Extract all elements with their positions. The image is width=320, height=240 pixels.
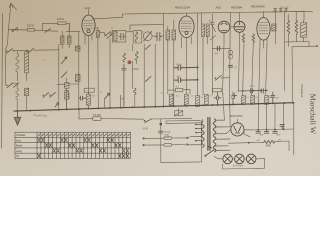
transformer secondary taps [215,120,230,150]
svg-text:50pF: 50pF [176,64,182,66]
svg-text:AB1: AB1 [215,5,222,9]
svg-text:Kurz: Kurz [16,138,22,142]
wire anode to top rail [95,14,123,19]
tiny value labels scattered [42,28,272,107]
transformer taps left [190,124,202,145]
switch arrow on bus [105,93,110,99]
wire antenna downlead [5,30,8,82]
coil L1 [16,54,19,72]
wire coil connections [17,50,26,81]
resistor hatched bus b1 [169,94,173,105]
box outline over bus [84,88,94,92]
transformer secondary winding [213,119,216,152]
svg-text:~170pF: ~170pF [131,69,139,71]
resistor hatched mid [75,46,80,51]
terminal dots mains [143,137,145,139]
transformer T primary winding [202,122,205,148]
capacitor at 212 [211,14,214,95]
wire U2 area verticals [163,13,197,106]
table X marks [38,138,129,158]
svg-text:2M: 2M [268,97,272,99]
resistor hatched bus b3 [196,96,200,107]
svg-text:4µF: 4µF [260,134,264,137]
resistor hatched mid2 [75,74,80,81]
resistor hatched r2 [251,96,255,105]
resistor zigzag MKE [264,140,275,143]
dial lamp L1 [223,154,233,164]
wire power rail corner [272,12,304,21]
dial lamp L3 [246,154,256,164]
arrows small mid bus [55,103,59,107]
wire long verticals right [223,12,293,103]
capacitor trio on rail [274,9,287,12]
svg-text:RENS1264: RENS1264 [175,5,190,9]
wire resistor 0,1 leads [168,90,190,94]
B+ bus bottom [251,128,294,131]
wire tube U1 legs [85,19,95,51]
svg-text:50 W: 50 W [143,128,149,130]
svg-text:1,1: 1,1 [42,60,45,62]
resistor zigzag a [242,34,244,43]
resistor hatched U2 left b [172,30,176,40]
transformer core [208,118,210,151]
scan edge artifact [1,14,2,149]
wire resistor 10000 leads [66,88,68,108]
diode tube D2 circle [234,21,245,32]
capacitor 4uF c [273,129,277,133]
resistor zigzag b [252,34,254,43]
resistor 10000 on bus [65,91,71,100]
capacitor 4pF [174,78,198,83]
switch slash lower left extra [13,83,18,87]
svg-text:5µF: 5µF [215,53,219,55]
switch TA mid [215,75,221,80]
wire rectifier leads [226,119,251,137]
wire B+ drops [258,103,294,155]
box small above bus [212,89,221,92]
svg-text:0,9A: 0,9A [164,133,169,136]
wire lamp series [214,156,264,169]
wire mid top links [100,25,163,37]
resistor hatched bus b2 [184,94,188,105]
wire short bus right [238,89,267,92]
resistor hatched U2 left a [166,30,170,40]
coil antenna secondary [68,36,72,44]
svg-text:Lang: Lang [16,149,22,153]
junction blob [160,123,162,125]
capacitor 4uF a [256,130,260,133]
capacitor pair [155,33,162,41]
svg-text:10000: 10000 [69,92,71,99]
resistor boxed hatched output [301,23,307,37]
svg-text:4µF: 4µF [277,134,281,137]
capacitor 4uF b [264,130,268,134]
ground symbol [14,111,21,125]
coil above bus [134,88,136,94]
resistor 20000 [58,22,67,25]
tube U2 RENS1264 [179,16,194,38]
svg-text:0,1: 0,1 [256,97,259,99]
wire tube U2 legs [182,37,192,52]
svg-text:20000: 20000 [56,17,65,21]
diode tube D1 circle [218,21,230,33]
antenna [8,3,16,30]
wire IF verticals [133,44,156,107]
capacitor on wire b [262,89,264,93]
wire fuse leads with arrows [172,137,189,139]
main ground bus [14,103,294,111]
svg-text:50000: 50000 [27,23,35,27]
table header ticks [38,134,130,136]
resistor hatched U4 [272,24,276,31]
capacitor mid bottom [64,83,69,89]
resistor 50000 [28,28,35,31]
svg-text:TA: TA [16,154,19,158]
svg-text:Σ 1A: Σ 1A [164,136,169,139]
svg-text:RES964: RES964 [231,6,243,10]
capacitor 0,1 mid [228,65,232,67]
svg-text:Schaltplan: Schaltplan [300,84,304,98]
switch S1 [12,27,17,31]
switch lower left [6,83,55,97]
resistor zigzag output a [287,20,289,34]
wire tube U2 stub [186,13,188,16]
svg-text:5n 5n: 5n 5n [250,86,256,88]
capacitor right edge [280,125,284,130]
capacitor polarized [231,92,235,105]
wire L2 leads [5,82,26,111]
svg-text:0,1: 0,1 [176,95,179,97]
capacitor on vertical [159,131,163,133]
coil core 2 [25,88,29,95]
table switch chart [15,132,131,158]
coil core hatched [25,52,29,73]
tube U4 RES964W [257,18,270,41]
svg-text:27 g 45 Ana: 27 g 45 Ana [32,113,48,118]
svg-text:MKE: MKE [266,144,272,147]
wire tube U4 stub [263,12,265,18]
wire heater right [275,141,289,151]
wire diagonal grid lead [209,20,215,40]
switch contacts mid [104,32,112,39]
switch bank left [6,48,34,53]
switch arrows IF [145,45,151,82]
svg-text:4pF: 4pF [176,75,180,78]
tube U1 AH1 [82,15,95,36]
capacitor C blocking [96,31,99,38]
resistor box 0,1 horizontal [175,88,182,91]
svg-text:A.SLA: A.SLA [163,131,171,134]
wire long verticals left-mid [59,32,110,111]
resistor hatched r1 [242,96,246,105]
resistor pair U3 [202,24,210,37]
wire tube U4 legs [260,39,267,48]
resistor zigzag output b [295,20,297,34]
svg-text:1M: 1M [92,96,95,98]
pickup jack TA box [174,108,182,115]
wire vertical to mains [161,119,202,162]
IF transformer coil a [123,53,126,62]
wire 0,5M leads [79,109,144,119]
svg-text:0,1: 0,1 [246,97,249,99]
capacitor T bus right [214,92,221,105]
wire diode links [202,13,240,95]
dial lamp L2 [235,154,245,164]
capacitor 170pF [122,64,126,107]
wire top supply rail [123,11,313,14]
fuse F1 [164,137,172,140]
switch TA line [145,119,152,123]
rectifier tube V5 [231,123,244,136]
IF transformer coil b [135,52,138,61]
wire output network [276,12,309,47]
svg-text:Marschall W: Marschall W [308,94,317,135]
svg-text:RGN1054: RGN1054 [230,114,243,118]
wire to TA [153,118,201,123]
capacitor uF right [271,92,275,103]
wire resistor taps [43,23,70,31]
switch arrow mid [61,57,67,78]
switch S2 [45,29,51,33]
wire feedback line [292,45,317,48]
capacitor 50pF [174,65,198,70]
wax dot stain [127,60,131,64]
bandfilter can 1 [112,30,126,42]
wire mid links [57,78,79,109]
table row labels [16,133,26,158]
heater wire with zigzag [228,141,264,144]
junction dots on bus [17,90,294,112]
capacitor on wire a [251,89,253,93]
fuse F2 [164,144,172,147]
svg-text:1M: 1M [201,97,204,99]
svg-text:24 V 0,1A: 24 V 0,1A [232,165,244,168]
svg-text:AH1: AH1 [84,6,91,10]
wire tube U1 top stub [88,10,90,16]
bandfilter can 2 [133,30,142,43]
wire antenna horizontal [8,30,80,32]
capacitor T left [79,96,86,100]
wire switch links [13,50,59,51]
resistor hatched bus b4 [205,94,209,104]
resistor hatched on bus 88 [87,94,91,105]
wire [95,27,98,44]
resistor 0,5 MOhm [93,114,102,121]
svg-text:0,5 MΩ: 0,5 MΩ [93,114,101,117]
svg-text:Mittel: Mittel [16,144,23,148]
plus marker [232,93,236,97]
svg-text:RES964W: RES964W [251,5,266,9]
svg-text:Schalter: Schalter [16,133,26,137]
wire heater tap top [213,47,231,49]
wire transformer top leads [201,90,230,161]
wire coil leads [62,25,69,49]
resistor hatched r3 [265,96,269,105]
wire loop crossing [229,50,233,54]
coil L2 [16,89,19,99]
paper background [0,0,320,176]
coil antenna primary [61,36,65,44]
trimmer circle [143,31,152,41]
wire stubs near bus [89,92,124,108]
capacitor 5uF [217,46,219,50]
voltage selector [206,150,214,156]
